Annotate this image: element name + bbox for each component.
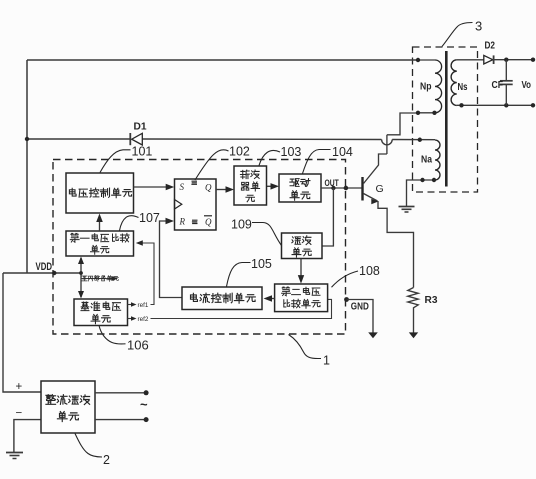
diode D1	[130, 133, 142, 145]
block: current control unit (电流控制单元) 105	[182, 287, 262, 310]
label 105 with leader	[227, 263, 251, 287]
flip-flop U102 (S-R latch)	[175, 179, 217, 230]
label 109 with leader	[252, 223, 282, 246]
label 102 with leader	[195, 150, 229, 180]
node Na top	[418, 138, 422, 142]
wire: collector vertical through D1 rail hop	[386, 135, 388, 154]
transistor Q1 base bar	[361, 177, 363, 201]
block: driver unit (驱动单元) 104	[279, 174, 321, 202]
svg-text:102: 102	[229, 145, 250, 159]
svg-text:2: 2	[103, 453, 110, 467]
block: voltage control unit (电压控制单元) 101	[66, 173, 134, 213]
transistor Q1 emitter with arrow	[364, 194, 378, 202]
block: reference voltage unit (基准电压单元) 106	[74, 299, 128, 326]
transformer core	[445, 51, 448, 187]
node: VDD junction at box-1 border	[52, 271, 56, 275]
label 101 with leader	[100, 150, 131, 173]
svg-text:Q: Q	[205, 217, 212, 227]
resistor R3	[408, 288, 418, 311]
diode D2	[484, 55, 493, 64]
node: junction left bus / D1 rail	[25, 137, 29, 141]
svg-text:−: −	[16, 408, 23, 420]
label 108 with leader	[332, 271, 359, 287]
svg-text:R3: R3	[425, 294, 438, 306]
node Np bottom	[416, 111, 420, 115]
controller IC dashed box 1	[53, 160, 346, 335]
svg-text:103: 103	[281, 145, 302, 159]
ink blob top of flip-flop	[191, 181, 197, 184]
svg-text:104: 104	[332, 145, 353, 159]
wire: VDD vertical double-arrow between comparator and reference	[80, 258, 82, 297]
svg-text:VDD: VDD	[36, 261, 53, 273]
wire: emitter down to R3	[378, 201, 414, 288]
svg-text:Ns: Ns	[458, 81, 468, 93]
wire: D2 cathode to output	[494, 59, 533, 61]
node: output top at cap	[504, 58, 508, 62]
wire: first comparator to voltage control (arrow up)	[99, 218, 101, 231]
svg-text:Na: Na	[421, 154, 432, 166]
svg-text:D1: D1	[134, 121, 147, 132]
svg-text:108: 108	[359, 264, 380, 278]
wire: chopper to driver	[267, 185, 274, 187]
label 104 with leader	[303, 150, 331, 174]
wire: D1 rail at y=139	[27, 138, 130, 140]
svg-text:Np: Np	[420, 80, 432, 92]
svg-text:105: 105	[251, 257, 272, 271]
wire: ref2 from reference unit	[128, 318, 133, 320]
svg-text:G: G	[376, 183, 384, 195]
node Np top	[416, 58, 420, 62]
wire: rectifier AC input bottom	[95, 419, 146, 421]
ink blob near Qbar	[192, 220, 198, 223]
svg-text:106: 106	[127, 338, 149, 353]
wire: filter to second comparator	[300, 259, 302, 279]
wire: current control output up to R input	[160, 221, 183, 298]
svg-text:D2: D2	[485, 41, 496, 52]
wire: base wire from OUT	[344, 186, 348, 190]
svg-text:ref2: ref2	[138, 316, 149, 323]
wire: OUT down to filter unit input	[322, 188, 333, 246]
ground symbol at rectifier	[6, 452, 23, 454]
svg-text:ref1: ref1	[138, 302, 149, 309]
block: filter unit (滤波单元) 109	[282, 233, 323, 259]
wire: top rail from left vertical to Np top	[27, 59, 418, 61]
svg-text:~: ~	[140, 397, 148, 412]
winding Ns	[451, 60, 457, 106]
wire: collector to Np bottom	[387, 113, 418, 135]
transistor Q1 collector	[364, 154, 387, 184]
wire: Q output to chopper	[216, 189, 228, 191]
block: rectifier-filter unit (整流滤波单元) box 2	[41, 381, 95, 433]
transformer dashed box 3	[413, 47, 478, 192]
wire: ref1 from reference unit	[128, 304, 133, 306]
wire: left edge down to rectifier + input	[3, 273, 41, 392]
label 3 with leader	[442, 23, 473, 47]
wire: Na bottom to ground	[407, 180, 436, 206]
node Ns bottom	[459, 103, 463, 107]
label 103 with leader	[259, 150, 280, 165]
wire: GND	[347, 300, 374, 334]
winding Np	[418, 59, 435, 61]
node GND pin on box-1 border	[344, 297, 349, 302]
node Na bottom	[420, 178, 424, 182]
ground arrow at GND	[368, 332, 378, 338]
wire: voltage-control to S input	[134, 186, 169, 188]
svg-text:Q: Q	[205, 183, 212, 193]
wire: left vertical bus	[26, 60, 28, 273]
node: OUT junction to filter	[331, 186, 335, 190]
wire: to-internal-units arrow (至内部各单元)	[81, 278, 113, 280]
wire: rectifier AC input top	[95, 392, 146, 394]
ground symbol below Na	[399, 206, 415, 208]
winding Na	[435, 140, 440, 180]
wire: second comparator to current control	[268, 298, 275, 300]
capacitor CF	[505, 60, 507, 81]
wire: R3 to ground arrow	[413, 311, 415, 334]
wire: rectifier - output to ground	[14, 420, 41, 452]
svg-text:109: 109	[231, 218, 252, 232]
svg-text:3: 3	[475, 19, 482, 34]
svg-text:1: 1	[323, 354, 330, 368]
block: second voltage comparison unit (第二电压比较单元) 108	[275, 284, 328, 312]
svg-text:101: 101	[132, 145, 153, 159]
label 107 with leader	[120, 216, 139, 231]
svg-text:GND: GND	[351, 301, 369, 312]
block: chopper unit (斩波器单元) 103	[234, 166, 267, 205]
wire: Ns top to D2	[457, 59, 484, 61]
label 106 with leader	[99, 326, 126, 345]
block: first voltage comparison unit (第一电压比较单元) 107	[66, 231, 134, 256]
svg-text:S: S	[180, 182, 185, 192]
svg-text:107: 107	[139, 211, 160, 225]
label 2 with leader	[75, 434, 102, 458]
svg-text:R: R	[179, 217, 186, 227]
label 1 with leader	[289, 335, 322, 359]
svg-text:+: +	[16, 381, 23, 393]
wire: driver output OUT to transistor base	[321, 187, 362, 189]
wire: VDD rail	[3, 272, 81, 274]
svg-text:Vo: Vo	[522, 80, 532, 91]
ground arrow below R3	[409, 332, 418, 338]
node: OUT at box-1 border	[344, 186, 348, 190]
clock triangle on flip-flop	[175, 200, 182, 210]
wire: Ns bottom rail	[457, 104, 533, 106]
svg-text:CF: CF	[492, 80, 504, 91]
